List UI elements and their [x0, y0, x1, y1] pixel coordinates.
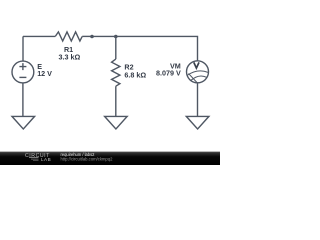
voltmeter scale arc upper: [187, 71, 208, 76]
wire: rail between dots: [92, 35, 116, 37]
voltmeter scale arc lower: [190, 76, 206, 81]
label R2 value: [124, 63, 146, 80]
ground (R2): [105, 116, 128, 129]
wire: R1 right lead to node dot: [82, 35, 92, 37]
svg-text:http://circuitlab.com/ckmpq2: http://circuitlab.com/ckmpq2: [61, 157, 114, 162]
plus sign: [19, 63, 26, 70]
ground (VM): [186, 116, 209, 129]
wire: top rail left segment from corner to R1: [23, 35, 55, 37]
label R1 value: [59, 45, 81, 62]
voltmeter needle: [189, 74, 198, 84]
wire: VM bottom to ground: [197, 83, 199, 117]
svg-text:6.8 kΩ: 6.8 kΩ: [124, 70, 146, 79]
svg-text:3.3 kΩ: 3.3 kΩ: [59, 53, 81, 62]
voltmeter V letter: [194, 62, 199, 68]
label VM value: [156, 61, 181, 77]
wire: R2 bottom to ground: [115, 86, 117, 116]
resistor R2: [112, 59, 120, 86]
node junction dot at R2 branch: [114, 35, 118, 39]
label E value: [37, 62, 52, 78]
ground (E): [12, 116, 35, 129]
svg-text:LAB: LAB: [41, 157, 51, 162]
wire: R2 branch from dot down to resistor: [115, 36, 117, 59]
wire: top-left vertical from rail corner down to E top: [22, 36, 24, 61]
minus sign: [19, 76, 26, 78]
wire: E bottom to ground: [22, 83, 24, 116]
resistor R1: [55, 32, 82, 41]
watermark logo LAB bars: [29, 156, 39, 159]
svg-text:8.079 V: 8.079 V: [156, 69, 181, 78]
wire: rail right segment and corner down to VM: [116, 36, 198, 61]
svg-text:12 V: 12 V: [37, 69, 52, 78]
voltmeter VM circle: [187, 61, 209, 83]
node junction dot left: [90, 35, 94, 39]
voltage source E circle: [12, 61, 34, 83]
watermark bar: [0, 152, 220, 165]
